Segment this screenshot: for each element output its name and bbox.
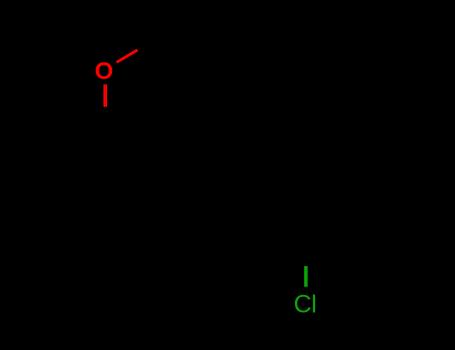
svg-text:C: C bbox=[294, 291, 312, 319]
bond O-CH3 (red half-bond, up-right) bbox=[117, 50, 138, 62]
svg-text:l: l bbox=[311, 291, 317, 319]
bond CH2-Cl (green half-bond, vertical) bbox=[304, 266, 308, 287]
svg-text:O: O bbox=[95, 58, 114, 85]
bond O-ring (red half-bond, vertical) bbox=[103, 84, 107, 106]
